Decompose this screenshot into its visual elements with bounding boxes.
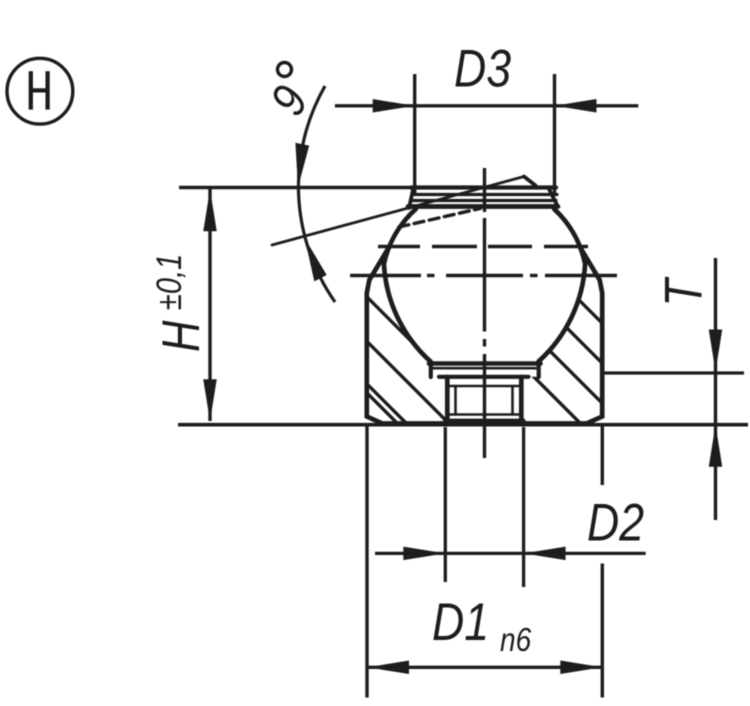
svg-text:D3: D3 bbox=[454, 40, 511, 98]
svg-text:T: T bbox=[655, 276, 713, 306]
svg-text:n6: n6 bbox=[500, 622, 532, 659]
svg-text:D1: D1 bbox=[432, 594, 489, 652]
svg-text:D2: D2 bbox=[587, 494, 644, 552]
